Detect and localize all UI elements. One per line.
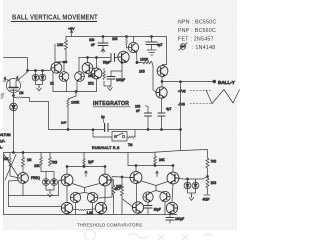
svg-text:1M: 1M: [19, 91, 24, 95]
svg-text:PNP : BC560C: PNP : BC560C: [178, 28, 216, 34]
svg-text:d: d: [4, 77, 6, 81]
svg-text:7M: 7M: [128, 143, 133, 147]
svg-text:BALL VERTICAL MOVEMENT: BALL VERTICAL MOVEMENT: [12, 14, 98, 22]
svg-text:10K: 10K: [57, 43, 64, 47]
svg-text:RUN/HALT R.S: RUN/HALT R.S: [92, 146, 120, 150]
svg-text:L-: L-: [0, 146, 3, 150]
svg-text:nF: nF: [136, 109, 140, 113]
svg-text:24K: 24K: [159, 158, 166, 162]
svg-text:INTEGRATOR: INTEGRATOR: [93, 101, 129, 107]
svg-text:2µF: 2µF: [88, 160, 94, 164]
svg-text:: 1N4148: : 1N4148: [192, 45, 215, 51]
svg-text:10K: 10K: [34, 164, 41, 168]
svg-text:2K2: 2K2: [88, 82, 94, 86]
svg-text:100K: 100K: [140, 58, 149, 62]
svg-text:50µF: 50µF: [103, 61, 110, 65]
svg-text:1K6: 1K6: [211, 181, 217, 185]
svg-text:+7V5: +7V5: [178, 90, 186, 94]
svg-text:THRESHOLD COMPARATORS: THRESHOLD COMPARATORS: [77, 223, 142, 228]
svg-text:4µ7: 4µ7: [157, 43, 163, 47]
svg-text:FREQ: FREQ: [31, 176, 40, 180]
svg-text:10K: 10K: [112, 37, 119, 41]
svg-text:1M: 1M: [27, 158, 32, 162]
svg-text:UF-: UF-: [0, 140, 5, 144]
svg-text:BALL-Y: BALL-Y: [218, 80, 235, 85]
svg-text:1nF: 1nF: [61, 121, 66, 125]
svg-text:100µF: 100µF: [175, 217, 184, 221]
svg-text:4µ7: 4µ7: [166, 107, 172, 111]
svg-text:-REF: -REF: [202, 198, 209, 202]
svg-text:7K5: 7K5: [211, 160, 217, 164]
svg-text:1K5: 1K5: [139, 70, 145, 74]
svg-text:10µF: 10µF: [154, 208, 161, 212]
svg-text:NPN : BC550C: NPN : BC550C: [178, 20, 216, 26]
svg-text:100: 100: [89, 38, 95, 42]
svg-text:ALTUM: ALTUM: [0, 133, 11, 137]
svg-text:100: 100: [135, 105, 141, 109]
svg-text:7K5: 7K5: [52, 161, 58, 165]
svg-text:100K: 100K: [71, 101, 80, 105]
svg-text:100nF: 100nF: [116, 78, 125, 82]
svg-text:1µ: 1µ: [101, 115, 105, 119]
svg-text:nF: nF: [91, 43, 95, 47]
svg-text:1K5: 1K5: [116, 185, 122, 189]
svg-text:-7V5: -7V5: [178, 103, 185, 107]
svg-text:FET : 2N5457: FET : 2N5457: [178, 37, 214, 43]
